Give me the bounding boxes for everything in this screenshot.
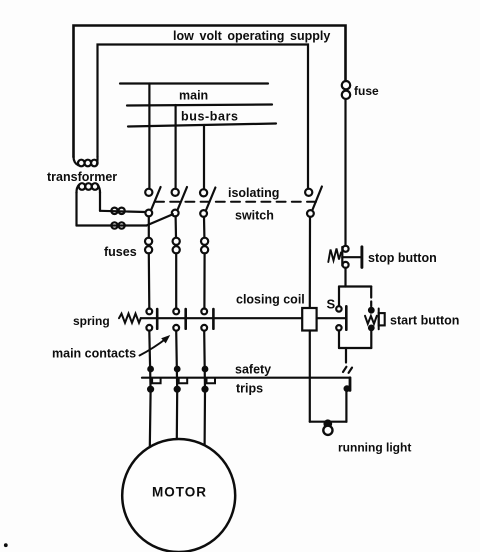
stray dot bottom left: [4, 543, 8, 547]
wire inner control loop left+top: [98, 45, 309, 189]
wire secondary upper horizontal: [100, 211, 145, 212]
wire diagonal to phase2 switch terminal: [147, 214, 173, 225]
bus-bar 3: [128, 124, 276, 127]
fuse (secondary lower line): [111, 222, 117, 228]
stop button contact: [342, 246, 362, 268]
wire phase2 contact to trips: [176, 331, 177, 391]
wire phase1 switch to fuse: [148, 216, 150, 237]
isolating switch pole 4 (control): [305, 187, 322, 217]
motor: [122, 439, 235, 552]
start button linkage dash: [370, 302, 372, 307]
contact S lower terminal: [336, 325, 341, 330]
svg-text:S: S: [327, 297, 336, 312]
svg-text:start button: start button: [390, 314, 459, 328]
fuse (control circuit, right): [342, 81, 350, 89]
contact S upper terminal: [336, 306, 341, 311]
main contact phase1: [146, 309, 157, 331]
wire phase2 drop from bus2: [175, 105, 177, 189]
svg-text:fuses: fuses: [104, 245, 137, 259]
wire S branch lower: [338, 331, 340, 349]
fuse phase3: [201, 238, 208, 254]
wire branch bottom bar: [339, 347, 371, 349]
wire phase2 switch to fuse: [175, 216, 178, 237]
isolating switch pole 1: [145, 187, 160, 216]
wire phase2 to motor: [176, 391, 179, 440]
wire coil to S bar: [317, 317, 345, 319]
wire S branch upper: [338, 287, 340, 307]
isolating switch pole 2: [172, 187, 187, 216]
contact S bar: [345, 306, 348, 329]
trip element phase2: [175, 367, 188, 392]
svg-text:main contacts: main contacts: [52, 347, 136, 361]
main contact phase3: [201, 309, 213, 331]
trip contact bar (control): [349, 378, 352, 391]
wire coil top (from pole4): [309, 217, 311, 308]
fuse phase1: [145, 238, 152, 254]
trip contact terminal: [345, 386, 350, 391]
isolating switch pole 3: [200, 188, 215, 217]
fuse (secondary upper line): [111, 208, 117, 214]
svg-text:fuse: fuse: [354, 84, 379, 98]
bus-bar 2: [127, 105, 272, 106]
start button cap: [379, 309, 385, 330]
safety trips bar line: [142, 377, 350, 379]
arrow to main contacts: [140, 338, 167, 356]
wire contactor bar line: [141, 317, 302, 319]
wire outer control loop left+top: [74, 26, 346, 158]
wire start branch upper: [370, 287, 372, 298]
svg-text:transformer: transformer: [47, 170, 117, 184]
wire secondary right down: [99, 192, 101, 211]
wire trip contact down: [345, 390, 347, 422]
svg-text:trips: trips: [236, 382, 263, 396]
svg-text:closing coil: closing coil: [236, 293, 305, 307]
svg-text:running light: running light: [338, 441, 411, 455]
svg-text:switch: switch: [235, 209, 274, 223]
wire phase1 contact to trips: [149, 331, 150, 391]
bus-bar 1: [120, 82, 268, 84]
svg-text:bus-bars: bus-bars: [181, 110, 239, 124]
wire secondary left down: [75, 192, 77, 226]
wire from fuse down to stop button: [344, 99, 346, 245]
svg-text:safety: safety: [235, 363, 271, 377]
trip linkage dashes: [343, 367, 346, 372]
wire stop button to branch top: [344, 268, 346, 287]
trip element phase3: [203, 367, 216, 392]
svg-text:low volt operating supply: low volt operating supply: [173, 29, 330, 43]
wire phase1 to motor: [149, 391, 152, 448]
wire secondary lower horizontal: [77, 224, 147, 226]
start button lower contact: [369, 326, 374, 331]
stop button spring: [328, 249, 341, 263]
closing coil: [302, 308, 316, 331]
running light lamp: [323, 426, 332, 435]
wire branch bottom to trip contact: [345, 348, 347, 363]
fuse phase2: [173, 238, 180, 254]
svg-text:stop button: stop button: [368, 251, 437, 265]
wire phase3 drop from bus3: [203, 125, 205, 189]
spring (contactor return): [119, 314, 141, 323]
svg-text:MOTOR: MOTOR: [152, 485, 207, 500]
main contact phase2: [173, 309, 185, 331]
transformer secondary coil: [76, 183, 100, 193]
start button spring: [365, 316, 377, 324]
svg-text:isolating: isolating: [228, 186, 279, 200]
wire bottom bar (lamp line): [310, 421, 347, 423]
running light base: [325, 421, 332, 428]
wire phase3 fuse to main contact: [203, 253, 205, 308]
isolating switch link dashed line: [155, 201, 316, 203]
wire phase3 contact to trips: [203, 331, 206, 391]
wire coil bottom down: [309, 331, 311, 422]
wire phase1 fuse to main contact: [148, 253, 151, 308]
trip element phase1: [148, 367, 161, 392]
wire phase1 drop from bus1: [148, 84, 150, 189]
svg-text:main: main: [179, 89, 208, 103]
wire phase3 to motor: [204, 391, 207, 446]
start button upper contact: [369, 308, 374, 313]
wire branch top bar: [339, 285, 371, 287]
transformer primary coil: [74, 157, 98, 167]
wire phase2 fuse to main contact: [175, 253, 177, 308]
wire start branch lower: [370, 330, 372, 348]
svg-text:spring: spring: [73, 314, 110, 328]
wire phase3 switch to fuse: [203, 217, 206, 238]
